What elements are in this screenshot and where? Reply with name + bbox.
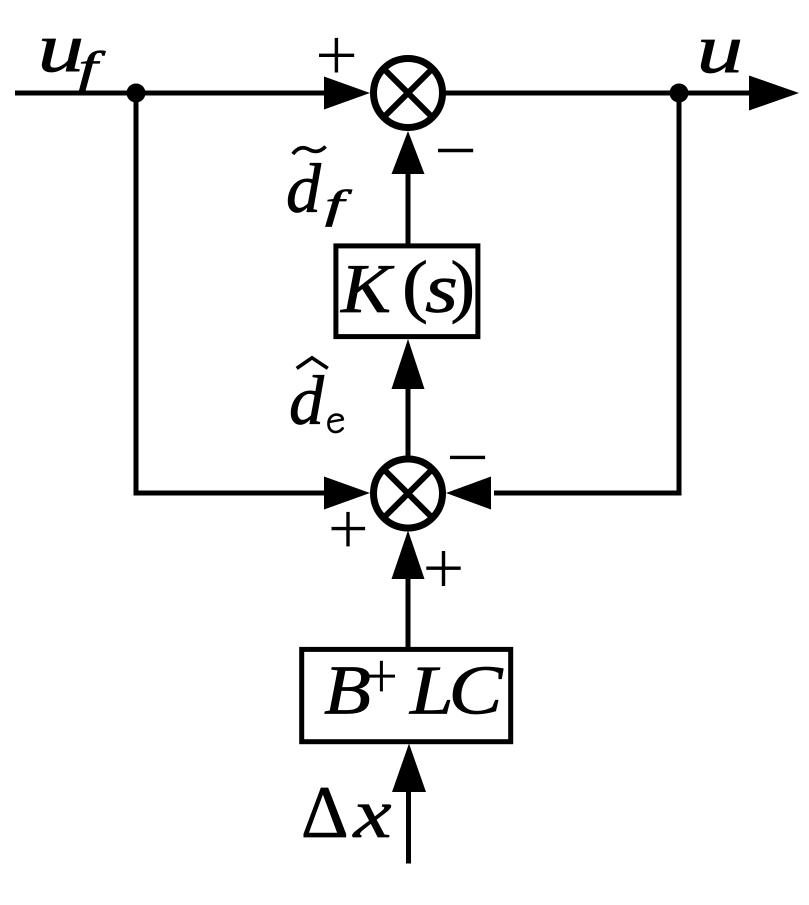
svg-text:L: L [409, 653, 454, 730]
svg-text:C: C [449, 653, 504, 730]
svg-text:Δ: Δ [301, 772, 349, 854]
svg-text:): ) [451, 248, 476, 325]
svg-text:d: d [289, 363, 325, 440]
svg-text:u: u [697, 11, 744, 88]
svg-text:x: x [352, 776, 391, 853]
svg-text:K: K [340, 251, 395, 328]
svg-text:u: u [38, 10, 85, 87]
svg-text:B: B [324, 653, 371, 730]
svg-text:d: d [286, 151, 322, 228]
